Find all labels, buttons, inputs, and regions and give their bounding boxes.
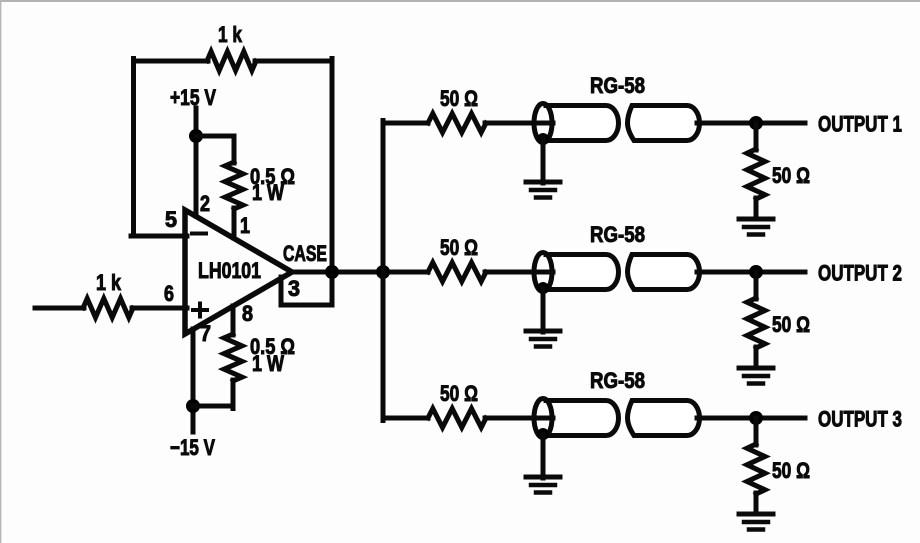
resistor R2b 50 ohm termination row 2: [747, 298, 765, 348]
wire row 3 coax to output: [697, 416, 805, 421]
wire pin 7 to -15V: [191, 329, 196, 432]
ground termination row 3: [739, 514, 773, 530]
wire feedback top left segment: [134, 59, 209, 64]
svg-text:50 Ω: 50 Ω: [440, 86, 478, 111]
svg-text:CASE: CASE: [283, 241, 327, 266]
wire output 1 to termination R1b: [754, 123, 759, 150]
wire distribution vertical: [381, 121, 386, 421]
svg-text:7: 7: [200, 321, 211, 346]
ground coax shield row 3: [526, 477, 560, 493]
resistor R_f 1k feedback: [207, 52, 256, 71]
wire +15V branch to R1: [196, 136, 234, 163]
coax cable W1 body right: [628, 106, 700, 141]
svg-text:RG-58: RG-58: [590, 222, 645, 247]
scan edge line left: [0, 0, 2, 543]
svg-text:OUTPUT 3: OUTPUT 3: [818, 407, 902, 432]
ground coax shield row 2: [526, 331, 560, 347]
wire row 2 coax to output: [697, 270, 805, 275]
op-amp U1 minus input marker: [192, 232, 206, 236]
wire R3b to ground: [754, 493, 759, 514]
wire feedback right vertical: [330, 59, 335, 273]
resistor R1a 50 ohm series row 1: [428, 114, 486, 133]
svg-text:6: 6: [164, 281, 174, 306]
wire branch row 1: [383, 121, 428, 126]
coax cable W2 front ellipse: [534, 253, 552, 292]
coax cable W3 body right: [628, 401, 700, 436]
wire R2b to ground: [754, 347, 759, 368]
svg-text:50 Ω: 50 Ω: [772, 163, 810, 188]
wire feedback top right segment: [255, 59, 332, 64]
node output/case junction: [325, 265, 339, 279]
svg-text:RG-58: RG-58: [590, 368, 645, 393]
wire input to pin 6: [132, 306, 187, 311]
ground termination row 2: [739, 368, 773, 384]
svg-text:OUTPUT 1: OUTPUT 1: [818, 112, 902, 137]
svg-text:RG-58: RG-58: [590, 73, 645, 98]
coax cable W1 front ellipse: [534, 104, 552, 143]
svg-text:LH0101: LH0101: [198, 258, 261, 283]
node junction +15V: [189, 129, 203, 143]
node output 2 junction: [749, 265, 763, 279]
wire -15V branch to R2: [193, 404, 233, 409]
svg-text:+15 V: +15 V: [170, 85, 216, 110]
coax cable W2 RG-58 body left: [546, 255, 619, 290]
node coax W1 shield tap: [537, 133, 549, 145]
svg-text:2: 2: [200, 191, 210, 216]
op-amp U1 LH0101 triangle: [185, 210, 292, 334]
resistor R3b 50 ohm termination row 3: [747, 444, 765, 494]
node coax W3 shield tap: [537, 428, 549, 440]
wire input left segment: [35, 306, 84, 311]
wire R2 to -15V rail: [231, 380, 236, 409]
wire branch row 3: [383, 416, 428, 421]
svg-text:OUTPUT 2: OUTPUT 2: [818, 261, 902, 286]
wire R1 to pin 1: [232, 208, 237, 238]
wire coax W3 shield to ground: [541, 434, 546, 478]
wire pin 8 to R2: [231, 306, 236, 335]
node output 1 junction: [749, 116, 763, 130]
svg-text:50 Ω: 50 Ω: [772, 458, 810, 483]
ground termination row 1: [739, 219, 773, 235]
svg-text:1 W: 1 W: [252, 180, 284, 205]
wire op-amp output: [290, 270, 428, 275]
wire output 2 to termination R2b: [754, 272, 759, 299]
wire row 2 resistor to coax center: [485, 270, 553, 275]
svg-text:−15 V: −15 V: [170, 435, 215, 460]
resistor R_in 1k input: [83, 299, 133, 318]
node distribution junction: [376, 265, 390, 279]
resistor R3a 50 ohm series row 3: [428, 409, 486, 428]
coax cable W1 RG-58 body left: [546, 106, 618, 141]
wire R1b to ground: [754, 198, 759, 219]
resistor R1 0.5 ohm top: [225, 162, 243, 209]
svg-text:3: 3: [288, 276, 300, 301]
ground coax shield row 1: [526, 182, 560, 198]
coax cable W3 front ellipse: [534, 399, 552, 438]
wire row 1 coax to output: [697, 121, 805, 126]
wire coax W1 shield to ground: [541, 139, 546, 183]
resistor R2a 50 ohm series row 2: [428, 263, 486, 282]
wire row 1 resistor to coax center: [485, 121, 553, 126]
coax cable W3 RG-58 body left: [546, 401, 619, 436]
resistor R2 0.5 ohm bottom: [224, 334, 242, 381]
coax cable W2 body right: [628, 255, 700, 290]
svg-text:5: 5: [165, 207, 177, 232]
wire case pin 3 loop: [281, 272, 332, 305]
svg-text:50 Ω: 50 Ω: [440, 381, 478, 406]
node coax W2 shield tap: [537, 282, 549, 294]
svg-text:50 Ω: 50 Ω: [440, 235, 478, 260]
op-amp U1 plus input marker: [193, 308, 207, 312]
wire row 3 resistor to coax center: [485, 416, 553, 421]
svg-text:1 k: 1 k: [96, 270, 122, 295]
wire +15V to pin 2: [194, 108, 199, 216]
svg-text:1 k: 1 k: [218, 22, 243, 47]
scan edge line top: [0, 0, 920, 2]
wire feedback to pin 5: [131, 234, 187, 239]
svg-text:1: 1: [240, 213, 250, 238]
wire coax W2 shield to ground: [541, 288, 546, 332]
node output 3 junction: [749, 411, 763, 425]
node junction -15V: [186, 399, 200, 413]
resistor R1b 50 ohm termination row 1: [747, 149, 765, 199]
wire feedback left vertical: [131, 59, 136, 237]
svg-text:50 Ω: 50 Ω: [772, 312, 810, 337]
svg-text:8: 8: [242, 301, 253, 326]
wire output 3 to termination R3b: [754, 418, 759, 445]
svg-text:1 W: 1 W: [252, 351, 284, 376]
